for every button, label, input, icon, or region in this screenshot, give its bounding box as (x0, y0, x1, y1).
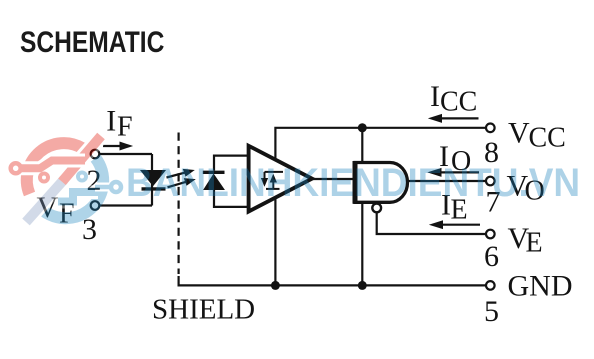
svg-text:V: V (508, 117, 530, 150)
svg-text:SCHEMATIC: SCHEMATIC (20, 24, 165, 58)
svg-text:6: 6 (484, 240, 499, 273)
svg-text:GND: GND (508, 270, 573, 303)
svg-text:BANLINHKIENDIENTU.VN: BANLINHKIENDIENTU.VN (126, 161, 580, 206)
svg-text:CC: CC (529, 123, 566, 154)
svg-text:CC: CC (440, 87, 477, 118)
svg-text:I: I (106, 105, 116, 138)
svg-text:F: F (117, 112, 133, 143)
svg-text:5: 5 (484, 295, 499, 328)
svg-text:SHIELD: SHIELD (152, 293, 255, 325)
svg-text:I: I (430, 80, 440, 113)
svg-text:E: E (526, 228, 543, 259)
